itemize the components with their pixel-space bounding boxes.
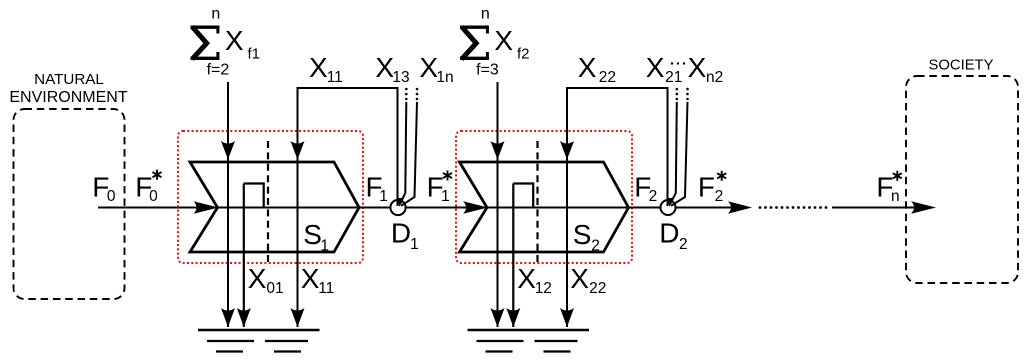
- dotted stub X13: [405, 88, 408, 101]
- wire X13 into D1: [400, 102, 407, 205]
- dotted stub Xn2: [686, 88, 689, 101]
- svg-text:X: X: [646, 52, 665, 83]
- svg-text:1: 1: [410, 236, 419, 253]
- society box: [906, 76, 1018, 283]
- svg-text:13: 13: [392, 69, 409, 86]
- label NATURAL ENVIRONMENT: [9, 71, 127, 106]
- label Fn*: [876, 171, 901, 205]
- label F2*: [698, 171, 726, 205]
- svg-text:f1: f1: [248, 45, 261, 62]
- svg-text:X: X: [301, 263, 320, 294]
- svg-text:X: X: [570, 263, 589, 294]
- svg-text:S: S: [573, 219, 592, 250]
- step pulse stage 2: [513, 184, 533, 208]
- wire X22 recycle: [567, 88, 668, 327]
- svg-text:01: 01: [266, 280, 283, 297]
- svg-text:0: 0: [149, 188, 158, 205]
- wire sigma1 input: [227, 82, 229, 327]
- svg-text:X: X: [578, 52, 597, 83]
- label F1*: [427, 171, 452, 205]
- label F0: [92, 171, 116, 205]
- svg-text:SOCIETY: SOCIETY: [929, 58, 994, 74]
- wire X1n into D1: [401, 102, 417, 206]
- svg-text:22: 22: [599, 69, 616, 86]
- svg-text:1: 1: [320, 238, 329, 255]
- arrowhead sigma2 residue to ground: [491, 308, 505, 327]
- arrowhead into D2: [667, 196, 675, 206]
- dashed split line stage 2: [536, 141, 538, 266]
- svg-text:11: 11: [327, 69, 343, 86]
- arrowhead Fn*: [911, 201, 936, 213]
- svg-text:11: 11: [318, 280, 334, 297]
- svg-text:1n: 1n: [436, 69, 453, 86]
- label X01: [248, 263, 284, 297]
- arrowhead sigma1 into stage: [221, 141, 235, 160]
- red boundary stage 1: [178, 131, 363, 263]
- label F0*: [135, 170, 161, 205]
- svg-text:0: 0: [107, 188, 116, 205]
- label Xn2: [688, 52, 724, 86]
- wire sigma2 input: [497, 82, 499, 327]
- arrowhead into stage 1: [194, 201, 219, 214]
- ground stage 2: [468, 330, 590, 352]
- svg-text:D: D: [659, 218, 679, 249]
- arrowhead X11 to ground: [291, 308, 305, 327]
- arrowhead into stage 2: [463, 201, 488, 214]
- dotted stub X1n: [416, 88, 419, 101]
- label S2: [573, 219, 600, 255]
- wire through stage 2: [487, 207, 660, 209]
- label X11 bottom: [301, 263, 335, 297]
- svg-text:X: X: [309, 52, 328, 83]
- svg-text:ENVIRONMENT: ENVIRONMENT: [9, 89, 127, 106]
- svg-text:S: S: [303, 219, 322, 250]
- wire Fn* into society: [832, 207, 921, 209]
- svg-text:X: X: [494, 25, 513, 56]
- label X13: [375, 52, 409, 86]
- wire X21 into D2: [670, 102, 677, 205]
- arrowhead X12 to ground: [506, 308, 520, 327]
- arrowhead X11 into stage: [291, 141, 305, 160]
- svg-text:X: X: [688, 52, 707, 83]
- arrowhead X22 to ground: [560, 308, 574, 327]
- label F1: [366, 171, 388, 205]
- label X11 top: [309, 52, 343, 86]
- svg-text:21: 21: [665, 69, 682, 86]
- arrowhead F2*: [728, 201, 752, 213]
- label X22 top: [578, 52, 616, 86]
- svg-text:D: D: [391, 218, 411, 249]
- svg-text:2: 2: [591, 238, 600, 255]
- sigma sum Xf1: [191, 6, 261, 79]
- svg-text:1: 1: [379, 188, 388, 205]
- svg-text:f2: f2: [517, 45, 530, 62]
- ground stage 1: [198, 330, 320, 352]
- svg-text:f=2: f=2: [207, 61, 230, 78]
- stage S1 chevron: [190, 162, 359, 252]
- svg-text:2: 2: [679, 236, 688, 253]
- svg-text:2: 2: [715, 188, 724, 205]
- svg-text:22: 22: [589, 280, 606, 297]
- arrowhead X22 into stage: [560, 141, 574, 160]
- label F2: [634, 171, 657, 205]
- dotted stub X21: [676, 88, 679, 101]
- natural environment box: [14, 109, 125, 299]
- wire Xn2 into D2: [671, 102, 688, 206]
- label X12: [517, 263, 552, 297]
- wire F2* out: [676, 207, 737, 209]
- svg-text:X: X: [248, 263, 267, 294]
- wire X12 to ground: [512, 184, 514, 328]
- wire X11 recycle: [298, 88, 398, 327]
- svg-text:X: X: [225, 25, 244, 56]
- svg-text:2: 2: [649, 188, 658, 205]
- label D1: [391, 218, 419, 254]
- svg-text:12: 12: [535, 280, 552, 297]
- arrowhead into D1: [397, 196, 405, 206]
- wire through stage 1: [218, 207, 391, 209]
- svg-text:X: X: [517, 263, 536, 294]
- dashed split line stage 1: [267, 141, 269, 266]
- red boundary stage 2: [456, 131, 632, 263]
- dots between X21 and Xn2: [671, 62, 685, 64]
- wire D1 to stage 2: [406, 207, 470, 209]
- sigma sum Xf2: [460, 6, 530, 79]
- svg-text:1: 1: [441, 188, 450, 205]
- arrowhead sigma1 residue to ground: [221, 308, 235, 327]
- label X21: [646, 52, 683, 86]
- dotted continuation: [759, 206, 828, 209]
- svg-text:n2: n2: [706, 69, 723, 86]
- arrowhead X01 to ground: [237, 308, 251, 327]
- svg-text:NATURAL: NATURAL: [34, 71, 104, 88]
- wire X01 to ground: [243, 184, 245, 328]
- node D2 circle: [661, 200, 676, 215]
- svg-text:n: n: [211, 6, 220, 23]
- label X22 bottom: [570, 263, 606, 297]
- node D1 circle: [390, 200, 405, 215]
- svg-text:n: n: [481, 6, 490, 23]
- stage S2 chevron: [460, 162, 629, 252]
- label D2: [659, 218, 687, 254]
- svg-text:n: n: [891, 188, 900, 205]
- label S1: [303, 219, 329, 255]
- svg-text:f=3: f=3: [476, 61, 499, 78]
- svg-text:F: F: [698, 171, 715, 202]
- label X1n: [419, 52, 453, 86]
- arrowhead sigma2 into stage: [491, 141, 505, 160]
- step pulse stage 1: [244, 184, 264, 208]
- wire F0 main input: [98, 207, 200, 209]
